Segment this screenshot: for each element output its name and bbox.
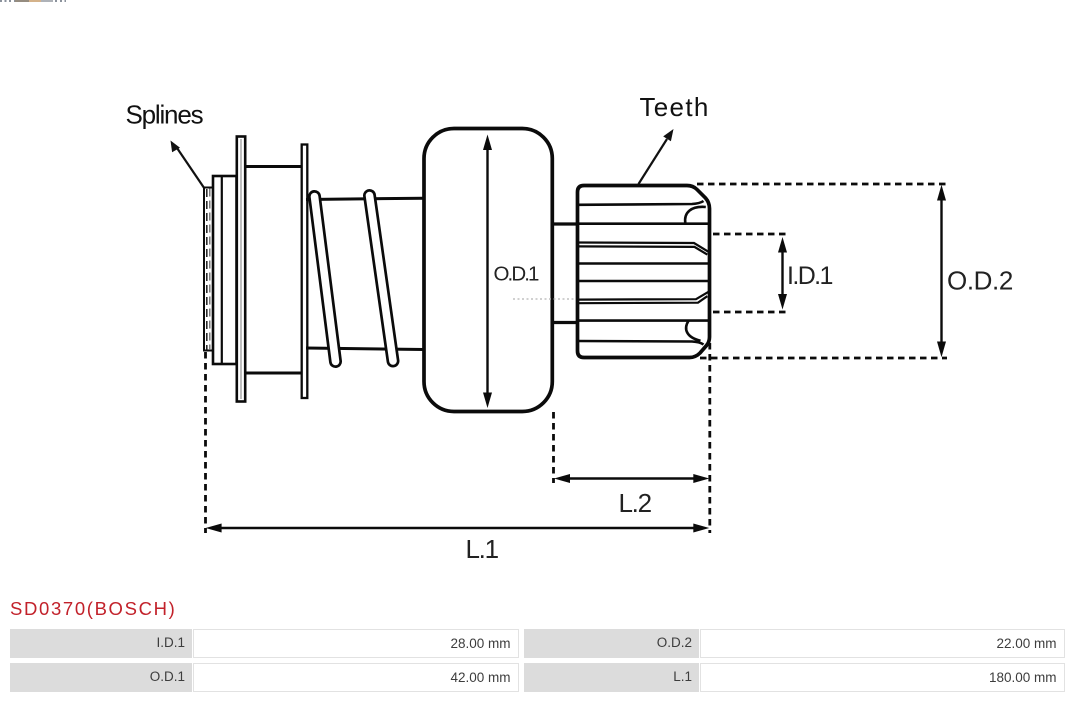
svg-text:O.D.1: O.D.1	[494, 263, 540, 286]
spline shaft end	[204, 188, 213, 351]
gear groove wedge B	[578, 292, 709, 300]
collar	[213, 176, 237, 364]
spec table row 1	[10, 629, 192, 658]
svg-text:Teeth: Teeth	[640, 92, 710, 122]
L.1 dimension arrow	[219, 527, 696, 529]
faint dotted centerline	[513, 298, 599, 300]
gear tooth line 2	[578, 222, 709, 225]
dashed vertical at gear right	[708, 343, 711, 533]
spring coil rod 2	[370, 196, 394, 362]
svg-text:L.1: L.1	[466, 534, 499, 564]
leader arrow to teeth	[639, 139, 668, 184]
I.D.1 extension dashed top	[713, 233, 787, 236]
L.2 dimension arrow	[568, 477, 696, 479]
gear tooth line 4	[578, 280, 709, 283]
pinion gear body	[578, 186, 710, 358]
svg-text:I.D.1: I.D.1	[787, 262, 832, 290]
part number	[10, 598, 176, 620]
I.D.1 extension dashed bottom	[713, 311, 787, 314]
gear groove wedge A	[578, 243, 709, 252]
gear tooth end arc bottom	[686, 321, 700, 341]
flange plate 2	[302, 145, 308, 399]
spring coil rod 1	[315, 197, 336, 362]
O.D.1 dimension arrow	[486, 146, 488, 397]
svg-text:L.2: L.2	[619, 488, 652, 518]
dashed vertical at housing right	[552, 412, 555, 483]
sleeve under spring	[306, 198, 424, 199]
dashed vertical at spline left	[204, 352, 207, 533]
leader arrow to splines	[176, 147, 206, 191]
clipped artifact strip top-left	[0, 0, 66, 2]
O.D.2 extension dashed bottom	[700, 357, 947, 360]
gear tooth end arc top	[685, 207, 706, 223]
gear tooth line 1	[578, 201, 704, 205]
svg-text:Splines: Splines	[126, 100, 204, 130]
O.D.2 dimension arrow	[940, 198, 942, 344]
I.D.1 dimension arrow	[781, 248, 783, 299]
svg-text:O.D.2: O.D.2	[947, 266, 1013, 296]
O.D.2 extension dashed top	[697, 183, 947, 186]
barrel between plates	[245, 165, 302, 168]
spec table row 2	[10, 663, 192, 692]
shaft between housing and pinion	[553, 222, 578, 225]
gear tooth line 6	[578, 341, 704, 345]
gear tooth line 5	[578, 319, 709, 322]
gear tooth line 3	[578, 262, 709, 265]
clutch housing	[424, 129, 552, 412]
flange plate 1	[237, 137, 245, 402]
